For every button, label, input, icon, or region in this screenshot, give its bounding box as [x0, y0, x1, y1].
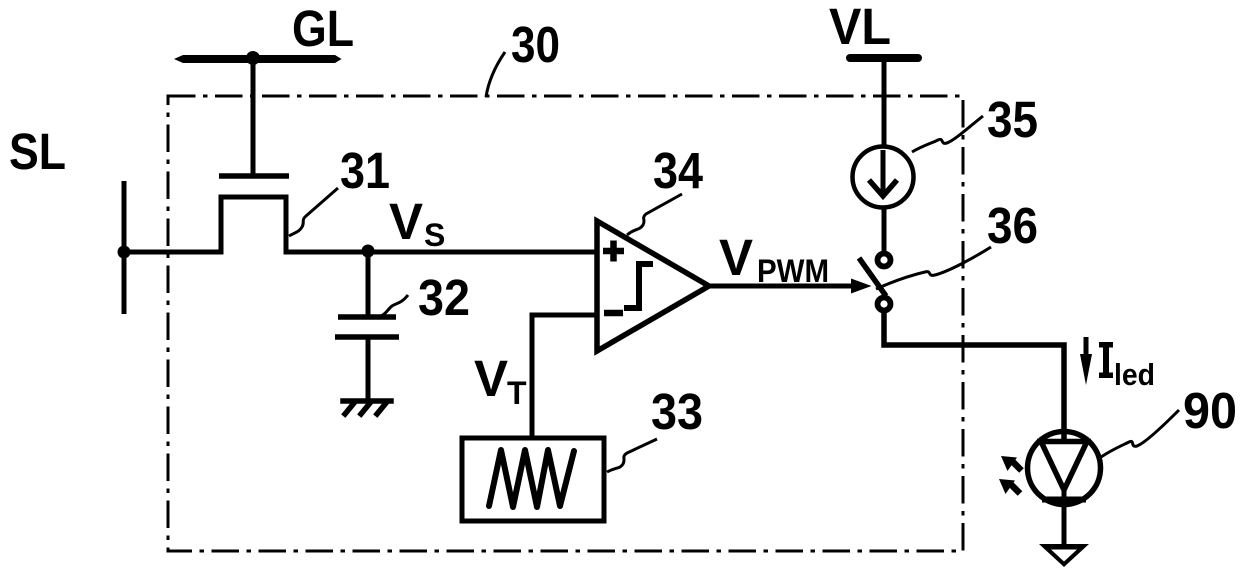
svg-text:31: 31 [340, 142, 390, 199]
svg-text:VL: VL [829, 0, 891, 55]
source line SL vertical [122, 181, 127, 314]
svg-text:32: 32 [418, 269, 470, 326]
node VS junction dot [362, 245, 375, 258]
Iled arrow [1084, 337, 1089, 362]
leader 90 [1101, 410, 1179, 457]
wire VT to minus input [532, 315, 597, 436]
svg-text:35: 35 [987, 91, 1038, 148]
wire VPWM output [709, 284, 855, 289]
capacitor C32 top lead [366, 252, 371, 315]
wire switch to LED [884, 312, 1064, 443]
svg-text:T: T [507, 375, 527, 411]
wire current source to switch [882, 206, 887, 252]
leader 31 [289, 188, 338, 236]
current source 35 circle [853, 147, 914, 208]
transistor Q31 gate bar [219, 173, 289, 179]
current source arrow head [869, 180, 897, 196]
label Iled [1099, 342, 1113, 378]
sawtooth generator box 33 [462, 438, 604, 521]
svg-text:34: 34 [653, 142, 704, 199]
gate line GL bus [174, 55, 342, 63]
junction dot SL [118, 246, 131, 259]
svg-text:GL: GL [292, 0, 354, 57]
LED triangle [1041, 442, 1087, 491]
capacitor C32 top plate [338, 314, 396, 320]
transistor Q31 channel + wire to op-amp [122, 197, 597, 252]
wire VL to current source [882, 60, 887, 148]
switch 36 blade [859, 258, 886, 296]
ground symbol [343, 401, 391, 414]
op-amp plus input mark [603, 241, 624, 262]
op-amp hysteresis symbol [624, 264, 653, 308]
svg-text:S: S [424, 217, 445, 253]
svg-text:33: 33 [651, 383, 703, 440]
svg-text:led: led [1114, 357, 1155, 392]
capacitor C32 bottom plate [335, 334, 399, 340]
arrowhead VPWM [851, 279, 872, 294]
leader 36 [876, 247, 991, 289]
wire gate vertical [251, 59, 256, 175]
svg-text:90: 90 [1183, 382, 1237, 439]
switch 36 bottom contact [878, 298, 891, 311]
LED emission arrow 1 [1012, 461, 1022, 471]
current source arrow shaft [881, 150, 886, 194]
op-amp U34 triangle [597, 221, 709, 351]
switch 36 top contact [878, 254, 891, 267]
svg-text:PWM: PWM [757, 253, 829, 289]
cathode terminal arrow [1039, 544, 1089, 567]
leader 35 [912, 116, 983, 152]
junction dot GL [246, 51, 260, 65]
LED D90 circle [1028, 432, 1101, 505]
VL terminal bar [850, 54, 918, 62]
leader 33 [607, 439, 657, 472]
svg-text:36: 36 [987, 197, 1038, 254]
boundary box 30 (dash-dot) [168, 96, 963, 551]
svg-text:30: 30 [511, 16, 560, 73]
wire LED to cathode terminal [1062, 490, 1067, 546]
leader 32 [381, 295, 408, 316]
leader 34 [627, 194, 682, 235]
leader 30 [486, 52, 505, 97]
LED cathode bar [1042, 497, 1086, 503]
svg-text:SL: SL [9, 123, 66, 180]
sawtooth waveform [489, 450, 574, 507]
capacitor C32 bottom lead [366, 339, 371, 400]
op-amp minus input mark [604, 310, 623, 317]
svg-text:V: V [389, 193, 423, 250]
svg-text:V: V [474, 350, 508, 407]
svg-text:V: V [719, 229, 753, 286]
LED emission arrow 2 [1010, 484, 1020, 494]
